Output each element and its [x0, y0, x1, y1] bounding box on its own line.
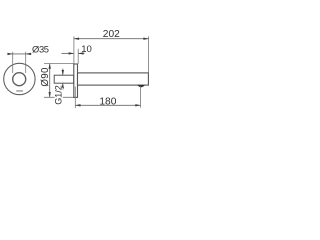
dimension 10 right tail line	[78, 52, 84, 54]
dimension 202 extension line right	[148, 36, 150, 72]
dimension Ø35 right arrow	[26, 53, 31, 55]
dimension 202 extension line left	[73, 36, 75, 63]
side view spout tube	[78, 73, 149, 85]
dimension 180 extension line left	[74, 87, 76, 109]
dimension Ø35 extension line right	[25, 52, 27, 73]
svg-text:G1/2: G1/2	[54, 85, 64, 105]
dimension Ø35 extension line left	[12, 52, 14, 73]
front view outer circle (escutcheon Ø90)	[4, 63, 35, 94]
dimension Ø90 extension line top	[44, 63, 74, 65]
dimension Ø90 top arrow	[49, 64, 51, 69]
svg-text:10: 10	[81, 44, 92, 55]
dimension 180 extension line right	[140, 86, 142, 107]
side view wall plate	[74, 64, 78, 97]
side view wall stub G1/2	[54, 75, 73, 83]
dimension 180 line	[75, 104, 140, 106]
dimension G1/2 line	[62, 69, 64, 90]
dimension 10 left tail line	[62, 52, 74, 54]
svg-text:202: 202	[103, 29, 120, 40]
dimension Ø90 line	[49, 64, 51, 98]
dimension G1/2 lower arrow	[62, 83, 64, 88]
svg-text:Ø35: Ø35	[32, 44, 49, 55]
dimension Ø35 line	[7, 53, 31, 55]
dimension 10 right arrow	[78, 52, 83, 54]
front view spout tube circle	[13, 73, 26, 86]
side view outlet bump	[137, 85, 145, 87]
logo mark inside circle	[16, 90, 23, 92]
dimension 202 right arrow	[143, 38, 148, 40]
dimension 202 left arrow	[74, 38, 79, 40]
svg-text:180: 180	[99, 97, 116, 108]
dimension 10 left arrow	[69, 52, 74, 54]
dimension G1/2 label backing	[55, 88, 63, 104]
dimension Ø90 extension line bottom	[44, 96, 74, 98]
dimension 202 line	[74, 38, 149, 40]
dimension 180 right arrow	[135, 104, 140, 106]
svg-text:Ø90: Ø90	[40, 67, 51, 87]
dimension 180 left arrow	[75, 104, 80, 106]
dimension Ø35 left arrow	[8, 53, 13, 55]
dimension 10 extension line right	[77, 49, 79, 64]
dimension Ø90 bottom arrow	[49, 92, 51, 97]
dimension G1/2 upper arrow	[62, 70, 64, 75]
